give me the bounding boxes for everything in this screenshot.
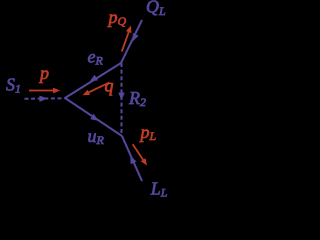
- wire: internal fermion line u_R (V1 to V3): [65, 98, 122, 136]
- arrowhead on L_L line (points toward bottom vertex): [130, 156, 136, 165]
- svg-text:p: p: [38, 63, 49, 83]
- momentum arrow p_Q: [122, 26, 132, 52]
- arrowhead on S1 line: [39, 96, 47, 102]
- wire: external fermion line Q_L (top right): [121, 20, 142, 63]
- momentum arrow q: [83, 82, 110, 95]
- wire: internal fermion line e_R (V1 to V2): [65, 63, 121, 98]
- wire: scalar R2 propagator (dashed, V2 down to V3): [121, 63, 123, 136]
- wire: incoming scalar S1 propagator (dashed): [25, 97, 66, 100]
- wire: external fermion line L_L (bottom right): [122, 136, 142, 181]
- arrowhead on R2 line (points down): [118, 93, 124, 101]
- arrowhead on e_R line (points toward left vertex): [90, 75, 99, 82]
- momentum arrow p: [29, 88, 60, 94]
- arrowhead on Q_L line (points toward upper vertex): [132, 33, 138, 42]
- momentum arrow p_L: [133, 144, 147, 165]
- arrowhead on u_R line (points toward bottom vertex): [90, 114, 98, 121]
- svg-text:q: q: [105, 76, 114, 96]
